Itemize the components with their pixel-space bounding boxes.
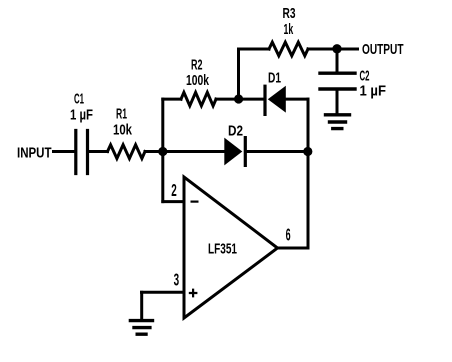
node B junction [234,94,243,103]
wire R3 to output node [308,48,337,51]
svg-text:3: 3 [174,270,180,290]
svg-text:6: 6 [286,225,291,245]
svg-text:10k: 10k [113,122,132,139]
ground below pin 3 [130,321,152,335]
svg-text:D2: D2 [228,123,243,140]
node C junction [303,147,312,156]
svg-text:INPUT: INPUT [17,144,52,161]
wire op-amp output [278,247,309,250]
wire C1 to R1 [89,150,108,153]
svg-text:C1: C1 [74,90,84,107]
diode D2 body [224,138,242,166]
wire D1 anode to corner [286,98,309,101]
svg-text:R3: R3 [283,5,296,22]
diode D1 body [268,86,286,113]
wire node A to R2 [163,98,181,101]
resistor R3 [269,42,308,56]
wire pin 2 stub [163,200,184,203]
wire C2 to ground [336,89,339,113]
op-amp U1 LF351 [184,177,278,318]
wire R3 left [239,48,270,51]
inverting input minus sign [191,201,199,203]
wire node B up to R3 [237,49,240,99]
svg-text:R1: R1 [116,106,127,123]
wire pin 3 down to ground [140,292,143,319]
wire output node down to C2 [336,49,339,72]
svg-text:1 µF: 1 µF [360,82,387,99]
resistor R2 [181,92,216,105]
diode D2 cathode bar [244,138,247,166]
wire R1 to node A [145,150,163,153]
svg-text:R2: R2 [191,57,203,74]
svg-text:LF351: LF351 [208,241,237,258]
wire output stub [337,48,358,51]
capacitor C2 [320,73,355,89]
ground below C2 [326,115,350,129]
wire node B to D1 [239,98,264,101]
svg-text:OUTPUT: OUTPUT [362,41,404,58]
wire node A vertical (R2 down to pin 2) [161,99,164,202]
wire D2 to node C [247,150,308,153]
svg-text:100k: 100k [186,72,209,89]
svg-text:D1: D1 [268,70,281,87]
svg-text:1 µF: 1 µF [70,107,93,124]
wire INPUT to C1 [54,150,75,153]
wire pin 3 stub [142,291,185,294]
node A junction [158,147,167,156]
non-inverting input plus sign [189,289,198,298]
svg-text:1k: 1k [284,21,294,38]
output node junction [332,44,341,53]
capacitor C1 [76,131,88,174]
wire vertical D1/node C/op-amp output [307,99,310,248]
svg-text:2: 2 [171,180,177,200]
wire R2 to node B [216,98,239,101]
resistor R1 [108,145,146,159]
wire node A to D2 [163,150,225,153]
diode D1 cathode bar [263,86,266,114]
